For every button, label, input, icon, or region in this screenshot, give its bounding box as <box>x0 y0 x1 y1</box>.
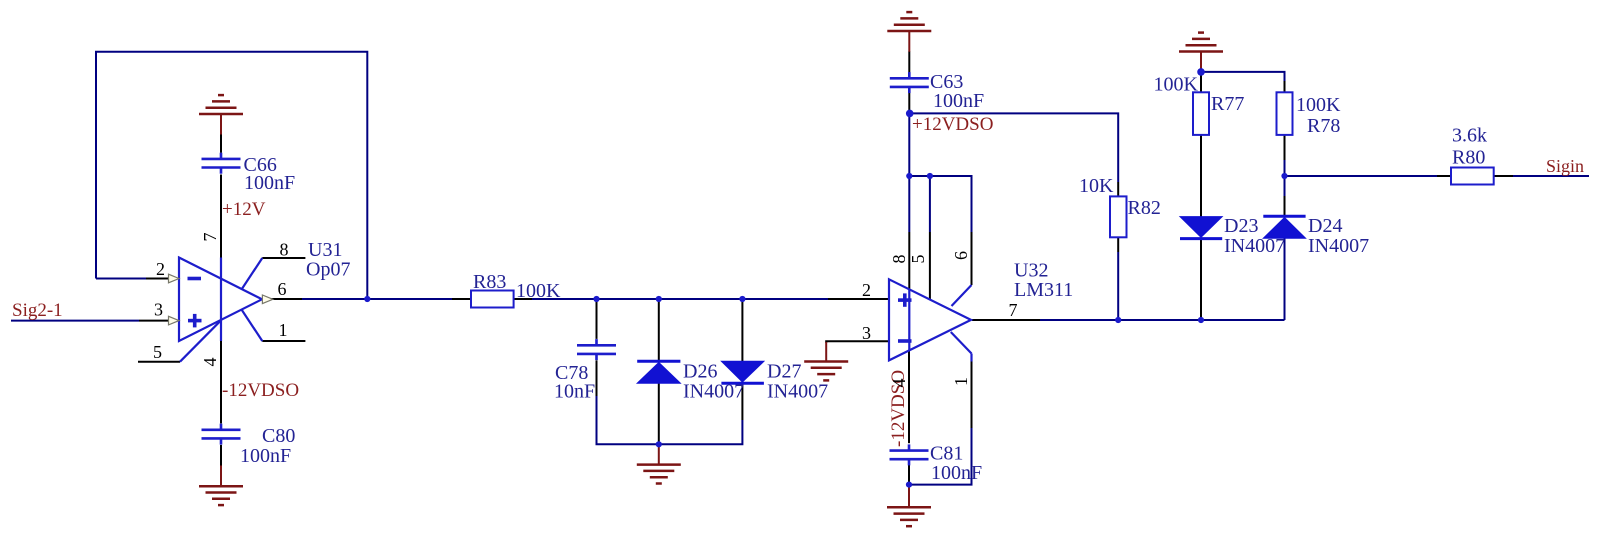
svg-text:C80: C80 <box>262 425 295 447</box>
svg-text:8: 8 <box>889 255 909 264</box>
svg-text:IN4007: IN4007 <box>1308 235 1369 257</box>
svg-text:5: 5 <box>153 342 162 362</box>
svg-text:R78: R78 <box>1307 115 1340 137</box>
svg-text:1: 1 <box>951 377 971 386</box>
svg-text:-12VDSO: -12VDSO <box>222 380 299 401</box>
svg-text:7: 7 <box>200 233 220 242</box>
svg-text:8: 8 <box>280 240 289 260</box>
svg-text:100nF: 100nF <box>240 445 291 467</box>
svg-text:3: 3 <box>862 323 871 343</box>
svg-text:100nF: 100nF <box>244 172 295 194</box>
svg-text:100K: 100K <box>516 280 561 302</box>
svg-text:Sig2-1: Sig2-1 <box>12 300 63 321</box>
svg-text:D23: D23 <box>1224 215 1258 237</box>
svg-text:100nF: 100nF <box>931 462 982 484</box>
svg-text:LM311: LM311 <box>1014 279 1073 301</box>
svg-text:1: 1 <box>279 320 288 340</box>
svg-text:IN4007: IN4007 <box>1224 235 1285 257</box>
svg-text:4: 4 <box>889 379 909 388</box>
svg-text:D27: D27 <box>767 361 801 383</box>
svg-text:+12V: +12V <box>222 199 266 220</box>
svg-text:3: 3 <box>154 300 163 320</box>
svg-text:IN4007: IN4007 <box>683 381 744 403</box>
svg-text:+12VDSO: +12VDSO <box>912 114 993 135</box>
svg-text:Sigin: Sigin <box>1546 156 1584 176</box>
svg-text:Op07: Op07 <box>306 258 350 280</box>
svg-text:IN4007: IN4007 <box>767 381 828 403</box>
svg-text:100nF: 100nF <box>933 90 984 112</box>
svg-text:R77: R77 <box>1211 93 1244 115</box>
svg-text:6: 6 <box>951 251 971 260</box>
svg-text:100K: 100K <box>1154 74 1199 96</box>
svg-text:D24: D24 <box>1308 215 1342 237</box>
svg-text:10K: 10K <box>1079 175 1114 197</box>
svg-text:2: 2 <box>862 280 871 300</box>
svg-text:5: 5 <box>908 255 928 264</box>
svg-text:6: 6 <box>278 279 287 299</box>
svg-text:7: 7 <box>1009 300 1018 320</box>
svg-text:10nF: 10nF <box>554 381 595 403</box>
svg-text:R82: R82 <box>1128 197 1161 219</box>
svg-text:100K: 100K <box>1296 94 1341 116</box>
svg-text:D26: D26 <box>683 361 717 383</box>
svg-text:R83: R83 <box>473 271 506 293</box>
svg-text:3.6k: 3.6k <box>1452 125 1487 147</box>
svg-text:R80: R80 <box>1452 147 1485 169</box>
svg-text:2: 2 <box>156 259 165 279</box>
svg-text:4: 4 <box>200 358 220 367</box>
